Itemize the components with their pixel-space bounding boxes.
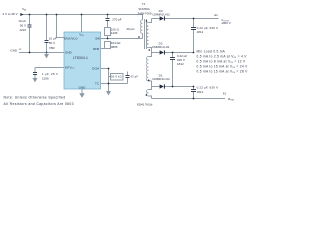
svg-text:RFB: RFB (93, 47, 99, 51)
svg-text:1812: 1812 (177, 62, 184, 66)
svg-text:CMMR1U-02: CMMR1U-02 (152, 13, 170, 17)
svg-text:CMMR1U-02: CMMR1U-02 (152, 45, 170, 49)
svg-text:GND: GND (10, 49, 18, 53)
svg-text:0.5 mA to 8 mA at VIN = 12 V: 0.5 mA to 8 mA at VIN = 12 V (197, 59, 247, 64)
svg-text:50 V: 50 V (49, 41, 55, 45)
svg-text:RTN1: RTN1 (228, 97, 235, 102)
svg-text:LT8304-1: LT8304-1 (73, 56, 88, 60)
svg-text:4 V to 36 V: 4 V to 36 V (2, 12, 18, 16)
svg-text:90.9 kΩ: 90.9 kΩ (111, 74, 122, 78)
svg-text:0.5 mA to 15 mA at VIN = 24 V: 0.5 mA to 15 mA at VIN = 24 V (197, 64, 249, 69)
svg-text:T1: T1 (142, 2, 146, 6)
svg-text:1206: 1206 (42, 76, 49, 80)
svg-text:GND: GND (79, 85, 87, 89)
svg-text:GND: GND (65, 50, 73, 54)
svg-text:0.5 mA to 2.5 mA at VIN = 4 V: 0.5 mA to 2.5 mA at VIN = 4 V (197, 54, 248, 59)
svg-text:E1: E1 (223, 91, 227, 95)
svg-text:1812: 1812 (197, 90, 204, 94)
svg-text:EN/UVLO: EN/UVLO (64, 36, 78, 40)
svg-text:SW: SW (95, 36, 100, 40)
svg-text:VIN: VIN (22, 7, 27, 12)
svg-text:3499-T069: 3499-T069 (138, 11, 152, 15)
svg-text:10 µF: 10 µF (49, 37, 57, 41)
svg-text:1000 V: 1000 V (221, 21, 231, 25)
svg-text:270 pF: 270 pF (112, 17, 122, 21)
svg-text:DCM: DCM (92, 66, 99, 70)
svg-text:X5R: X5R (49, 46, 56, 50)
svg-text:50 V: 50 V (20, 23, 26, 27)
svg-text:1206: 1206 (111, 31, 118, 35)
svg-text:SUMIDA: SUMIDA (138, 7, 149, 11)
svg-text:23: 23 (19, 49, 22, 51)
svg-text:E2: E2 (215, 13, 219, 17)
svg-text:0805: 0805 (111, 45, 118, 49)
svg-text:1210: 1210 (19, 28, 26, 32)
svg-text:83041 TA01b: 83041 TA01b (137, 103, 153, 107)
svg-text:10 µF: 10 µF (18, 19, 26, 23)
svg-text:Min Load 0.5 mA: Min Load 0.5 mA (197, 49, 226, 53)
svg-text:0.5 mA to 15 mA at VIN = 28 V: 0.5 mA to 15 mA at VIN = 28 V (197, 69, 249, 74)
svg-text:Note: Unless Otherwise Specifi: Note: Unless Otherwise Specified (4, 96, 66, 100)
svg-text:CMMR1U-02: CMMR1U-02 (152, 77, 170, 81)
svg-text:43 pF: 43 pF (130, 74, 138, 78)
svg-text:1812: 1812 (197, 30, 204, 34)
svg-text:All Resistors and Capacitors A: All Resistors and Capacitors Are 0603 (4, 102, 74, 106)
svg-text:40 µH: 40 µH (126, 27, 134, 31)
